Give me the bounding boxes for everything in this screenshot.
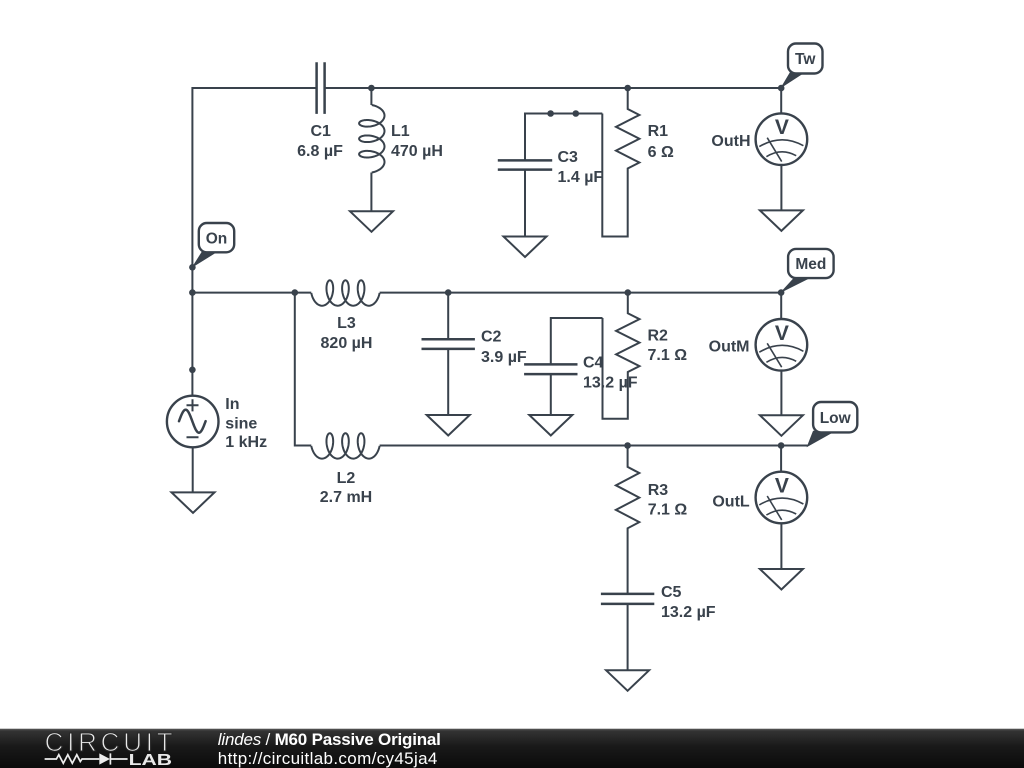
svg-text:Med: Med [795, 256, 826, 273]
svg-text:820 µH: 820 µH [321, 335, 373, 352]
svg-text:sine: sine [225, 415, 257, 432]
svg-text:L3: L3 [337, 315, 356, 332]
svg-text:http://circuitlab.com/cy45ja4: http://circuitlab.com/cy45ja4 [218, 749, 438, 768]
svg-text:OutM: OutM [709, 338, 750, 355]
svg-text:LAB: LAB [129, 752, 173, 768]
svg-text:Tw: Tw [795, 51, 816, 68]
svg-text:6.8 µF: 6.8 µF [297, 143, 343, 160]
svg-text:1 kHz: 1 kHz [225, 434, 267, 451]
svg-text:13.2 µF: 13.2 µF [583, 374, 638, 391]
svg-text:3.9 µF: 3.9 µF [481, 349, 527, 366]
svg-text:OutH: OutH [711, 133, 750, 150]
svg-text:R1: R1 [648, 123, 669, 140]
svg-text:6 Ω: 6 Ω [648, 144, 674, 161]
svg-text:7.1 Ω: 7.1 Ω [648, 501, 688, 518]
svg-text:2.7 mH: 2.7 mH [320, 489, 372, 506]
svg-text:R2: R2 [648, 327, 669, 344]
svg-text:C5: C5 [661, 584, 682, 601]
svg-text:C1: C1 [310, 123, 331, 140]
svg-text:On: On [206, 230, 228, 247]
svg-text:OutL: OutL [712, 493, 750, 510]
svg-text:1.4 µF: 1.4 µF [558, 169, 604, 186]
svg-text:In: In [225, 396, 239, 413]
svg-text:L2: L2 [337, 470, 356, 487]
svg-text:C2: C2 [481, 328, 502, 345]
svg-text:C3: C3 [558, 149, 579, 166]
svg-text:lindes / M60 Passive Original: lindes / M60 Passive Original [218, 730, 441, 749]
svg-text:V: V [775, 116, 789, 139]
svg-text:R3: R3 [648, 482, 669, 499]
svg-text:13.2 µF: 13.2 µF [661, 604, 716, 621]
svg-text:L1: L1 [391, 123, 410, 140]
svg-text:V: V [775, 475, 789, 498]
svg-text:7.1 Ω: 7.1 Ω [648, 347, 688, 364]
svg-text:C4: C4 [583, 354, 604, 371]
svg-text:470 µH: 470 µH [391, 143, 443, 160]
svg-text:V: V [775, 322, 789, 345]
svg-text:Low: Low [820, 410, 852, 427]
